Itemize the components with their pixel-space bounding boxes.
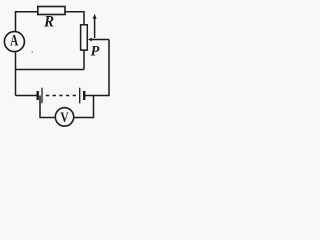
svg-text:A: A: [10, 31, 18, 48]
svg-text:R: R: [43, 14, 54, 30]
svg-text:V: V: [60, 109, 69, 126]
svg-text:P: P: [91, 44, 100, 60]
